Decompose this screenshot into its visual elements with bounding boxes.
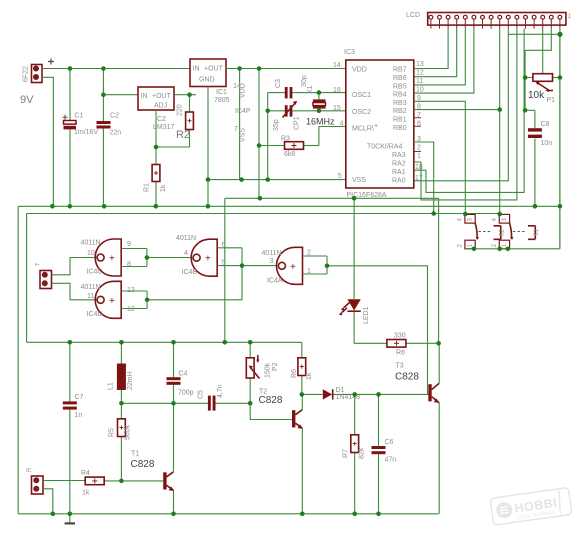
svg-text:22n: 22n bbox=[110, 130, 122, 137]
svg-text:C7: C7 bbox=[75, 394, 84, 401]
battery connector X1 9V 6F22 bbox=[20, 59, 54, 107]
svg-text:+OUT: +OUT bbox=[204, 66, 224, 73]
wire R pin1 to R4 bbox=[43, 480, 85, 482]
svg-text:4011N: 4011N bbox=[176, 235, 196, 242]
svg-text:1k: 1k bbox=[82, 490, 90, 497]
svg-text:S1: S1 bbox=[534, 228, 540, 236]
svg-text:+: + bbox=[205, 254, 211, 265]
connector R bbox=[27, 467, 43, 494]
wire T3 collector and emitter bbox=[438, 343, 440, 514]
wire battery plus rail to 7805 IN bbox=[42, 68, 190, 70]
wire LCD pin 3 to P1 wiper bbox=[542, 29, 544, 74]
resistor R2 220 bbox=[176, 95, 193, 147]
wire +5V distribution line bbox=[225, 197, 439, 199]
switch S2 bbox=[458, 214, 506, 248]
svg-text:22mH: 22mH bbox=[127, 371, 134, 390]
svg-text:VSS: VSS bbox=[352, 177, 366, 184]
svg-text:16: 16 bbox=[333, 87, 341, 94]
svg-text:R5: R5 bbox=[109, 428, 116, 437]
svg-text:P1: P1 bbox=[547, 97, 556, 104]
capacitor C5 4,7n bbox=[198, 384, 225, 410]
capacitor C3 30p bbox=[275, 75, 308, 98]
svg-text:RB5: RB5 bbox=[393, 84, 407, 91]
transistor T3 C828 bbox=[395, 363, 439, 403]
VSS rail to PIC bbox=[208, 179, 346, 181]
svg-text:12: 12 bbox=[416, 70, 424, 77]
svg-text:IC2: IC2 bbox=[155, 116, 166, 123]
svg-text:6k8: 6k8 bbox=[284, 151, 295, 158]
wire +5V rail 7805 OUT to PIC VDD bbox=[226, 68, 346, 70]
LCD pin circles and stubs bbox=[429, 15, 562, 28]
IC4P power pins 14 VDD 7 VSS bbox=[233, 69, 251, 180]
wire LCD pin 2 VDD supply bbox=[525, 29, 551, 111]
svg-text:GND: GND bbox=[199, 77, 215, 84]
svg-text:ADJ: ADJ bbox=[154, 103, 167, 110]
svg-text:11: 11 bbox=[87, 293, 94, 300]
wire R pin2 to ground bbox=[43, 489, 53, 514]
svg-text:RB1: RB1 bbox=[393, 117, 407, 124]
resistor R1 1k bbox=[144, 147, 168, 206]
svg-text:+: + bbox=[374, 123, 378, 130]
diode D1 1N4148 bbox=[302, 387, 429, 401]
inductor L1 22mH bbox=[108, 342, 135, 403]
trimmer capacitor CP1 35p bbox=[273, 101, 301, 131]
ground symbol bbox=[65, 514, 75, 524]
svg-text:MCLR\: MCLR\ bbox=[352, 126, 374, 133]
svg-text:P2: P2 bbox=[272, 362, 279, 371]
nand gate IC4D 4011N bbox=[81, 281, 135, 318]
svg-text:C828: C828 bbox=[259, 395, 283, 406]
svg-text:RB0: RB0 bbox=[393, 125, 407, 132]
svg-text:220: 220 bbox=[177, 104, 184, 116]
wire T pin2 to IC4D output bbox=[52, 283, 98, 300]
bottom ground rail bbox=[18, 513, 438, 515]
transistor T2 C828 bbox=[259, 389, 304, 429]
wire RB2 LCD pin 8 to switch S1 bbox=[414, 29, 500, 215]
wire R6 top bbox=[301, 342, 303, 358]
svg-text:C3: C3 bbox=[275, 79, 282, 88]
svg-text:C4: C4 bbox=[179, 371, 188, 378]
svg-text:330: 330 bbox=[394, 333, 406, 340]
capacitor C6 47n bbox=[372, 394, 397, 513]
svg-text:1k: 1k bbox=[306, 372, 313, 380]
wire RB4 to LCD pin 11 bbox=[414, 29, 474, 94]
svg-text:10k: 10k bbox=[528, 90, 545, 101]
oscillator rail bbox=[27, 341, 302, 343]
svg-text:47n: 47n bbox=[385, 457, 397, 464]
svg-text:1m/16V: 1m/16V bbox=[74, 129, 98, 136]
wire RA0 to LCD pin 7 bbox=[414, 29, 508, 181]
svg-text:LED1: LED1 bbox=[363, 306, 370, 324]
capacitor C4 700p bbox=[167, 342, 194, 403]
svg-text:R2: R2 bbox=[176, 129, 190, 141]
svg-text:15: 15 bbox=[333, 105, 341, 112]
wire oscillator caps ground vertical bbox=[267, 93, 269, 180]
svg-text:IC4C: IC4C bbox=[87, 269, 103, 276]
svg-text:T1: T1 bbox=[131, 451, 139, 458]
svg-text:4011N: 4011N bbox=[81, 240, 101, 247]
wire T pin1 to IC4C output bbox=[52, 258, 98, 275]
svg-text:RB2: RB2 bbox=[393, 108, 407, 115]
wire RB7 to LCD pin 14 bbox=[414, 29, 448, 69]
svg-text:700p: 700p bbox=[178, 390, 194, 397]
microcontroller IC3 PIC16F628A bbox=[333, 49, 424, 199]
svg-text:R8: R8 bbox=[396, 350, 405, 357]
svg-text:150k: 150k bbox=[265, 362, 272, 378]
voltage regulator IC1 7805 bbox=[190, 59, 230, 104]
svg-text:IN: IN bbox=[141, 93, 148, 100]
svg-text:IC1: IC1 bbox=[216, 89, 227, 96]
svg-text:IN: IN bbox=[193, 66, 200, 73]
svg-text:4011N: 4011N bbox=[262, 250, 282, 257]
wire ground rail left drop bbox=[17, 206, 19, 514]
svg-text:560k: 560k bbox=[125, 424, 132, 440]
wire IC4A inputs tied to T3 base net bbox=[303, 256, 428, 394]
svg-text:L1: L1 bbox=[108, 382, 115, 390]
svg-text:C6: C6 bbox=[385, 439, 394, 446]
watermark logo HOBBI ELEKTRONIKA bbox=[490, 487, 572, 525]
svg-text:10: 10 bbox=[416, 87, 424, 94]
svg-text:IC4B: IC4B bbox=[182, 269, 198, 276]
svg-text:6F22: 6F22 bbox=[23, 66, 30, 82]
svg-text:+: + bbox=[290, 262, 296, 273]
wire +5V drop to R8 bbox=[438, 198, 440, 343]
svg-text:RA2: RA2 bbox=[392, 161, 406, 168]
svg-text:4: 4 bbox=[184, 250, 188, 257]
svg-text:30p: 30p bbox=[301, 75, 308, 87]
svg-text:IC4P: IC4P bbox=[235, 108, 251, 115]
wire LM317 OUT to R2 bbox=[174, 94, 196, 96]
resistor R6 1k bbox=[291, 358, 313, 395]
potentiometer P1 10k bbox=[525, 74, 560, 104]
svg-text:VDD: VDD bbox=[240, 83, 247, 98]
wire T1 base row bbox=[121, 480, 163, 482]
svg-text:C8: C8 bbox=[541, 121, 550, 128]
nand gate IC4A 4011N bbox=[262, 247, 312, 284]
LCD header connector bbox=[406, 12, 572, 25]
transistor T1 C828 bbox=[131, 451, 175, 492]
svg-text:RB4: RB4 bbox=[393, 92, 407, 99]
resistor R4 1k bbox=[81, 470, 121, 497]
resistor R7 82k bbox=[343, 394, 366, 513]
svg-text:7: 7 bbox=[234, 126, 238, 133]
svg-text:16MHz: 16MHz bbox=[306, 117, 335, 127]
svg-text:9V: 9V bbox=[20, 94, 34, 106]
resistor R8 330 bbox=[354, 333, 439, 357]
svg-text:T: T bbox=[36, 262, 42, 266]
svg-text:5: 5 bbox=[338, 173, 342, 180]
svg-text:VSS: VSS bbox=[240, 128, 247, 142]
svg-text:C2: C2 bbox=[110, 113, 119, 120]
svg-text:7805: 7805 bbox=[214, 97, 230, 104]
svg-text:IC3: IC3 bbox=[344, 49, 355, 56]
wire battery minus down to ground rail bbox=[42, 77, 53, 206]
wire rail B RA4 net across bbox=[27, 213, 500, 215]
connector T bbox=[36, 262, 52, 289]
svg-text:35p: 35p bbox=[273, 119, 280, 131]
svg-text:RB3: RB3 bbox=[393, 100, 407, 107]
svg-text:R6: R6 bbox=[291, 369, 298, 378]
svg-text:10n: 10n bbox=[541, 140, 553, 147]
svg-text:1: 1 bbox=[417, 153, 421, 160]
svg-text:RB6: RB6 bbox=[393, 75, 407, 82]
crystal X1 16MHz bbox=[306, 85, 335, 126]
svg-text:12: 12 bbox=[127, 306, 135, 313]
wire RB3 to switch S2 bbox=[414, 101, 465, 214]
svg-text:1n: 1n bbox=[75, 412, 83, 419]
resistor R5 560k bbox=[109, 403, 132, 481]
wire RB5 to LCD pin 12 bbox=[414, 29, 465, 85]
svg-text:LCD: LCD bbox=[406, 12, 420, 19]
wire IC4D inputs tied to IC4B inputs bbox=[121, 248, 242, 309]
wire 7805 GND down to ground rail bbox=[207, 87, 209, 207]
svg-text:RA0: RA0 bbox=[392, 178, 406, 185]
svg-text:C5: C5 bbox=[198, 390, 205, 399]
wire +5V branch down to R3 and lower section bbox=[258, 69, 260, 199]
wire T1 collector and emitter bbox=[173, 403, 175, 514]
voltage regulator IC2 LM317 bbox=[138, 87, 175, 131]
svg-text:4011N: 4011N bbox=[81, 284, 101, 291]
capacitor C1 1m/16V bbox=[63, 69, 99, 207]
svg-text:VDD: VDD bbox=[352, 67, 367, 74]
wire RA2 to LCD pin 6 bbox=[414, 29, 517, 200]
svg-text:OSC1: OSC1 bbox=[352, 92, 371, 99]
svg-text:14: 14 bbox=[333, 62, 341, 69]
wire MCLR net R3 to PIC bbox=[319, 127, 346, 146]
wire P2 bottom to T2 base bbox=[250, 403, 293, 419]
wire IC4C inputs tied bbox=[121, 249, 192, 267]
svg-text:T3: T3 bbox=[396, 363, 404, 370]
svg-text:82k: 82k bbox=[359, 447, 366, 459]
svg-text:+: + bbox=[109, 254, 115, 265]
capacitor C7 1n bbox=[63, 342, 84, 514]
svg-text:IC4A: IC4A bbox=[267, 278, 283, 285]
svg-text:S2: S2 bbox=[500, 228, 506, 236]
svg-text:RA1: RA1 bbox=[392, 169, 406, 176]
svg-text:2: 2 bbox=[417, 145, 421, 152]
wire IC4B inputs to IC4A output bbox=[217, 248, 276, 266]
svg-text:T0CKI/RA4: T0CKI/RA4 bbox=[367, 144, 403, 151]
wire T2 collector up emitter down bbox=[301, 394, 303, 513]
svg-text:11: 11 bbox=[416, 78, 423, 85]
LED1 bbox=[339, 198, 370, 343]
wire branch top rail down to LM317 IN bbox=[103, 69, 138, 95]
wire LM317 ADJ to R1/R2 node bbox=[156, 110, 190, 147]
svg-text:IC4D: IC4D bbox=[87, 311, 103, 318]
svg-text:RA3: RA3 bbox=[392, 152, 406, 159]
svg-text:C1: C1 bbox=[75, 113, 84, 120]
wire rail B left drop to oscillator rail bbox=[26, 214, 28, 343]
svg-text:R1: R1 bbox=[144, 183, 151, 192]
svg-text:R3: R3 bbox=[281, 136, 290, 143]
svg-text:+OUT: +OUT bbox=[152, 93, 172, 100]
wire RA1 to LCD pin 5 bbox=[414, 29, 524, 193]
svg-text:X1: X1 bbox=[307, 85, 314, 94]
svg-text:R4: R4 bbox=[81, 470, 90, 477]
svg-text:3: 3 bbox=[270, 258, 274, 265]
nand gate IC4C 4011N bbox=[81, 239, 132, 276]
svg-text:+: + bbox=[109, 296, 115, 307]
svg-text:4,7n: 4,7n bbox=[217, 384, 224, 398]
wire OSC1 row bbox=[268, 92, 346, 94]
wire LCD pin 1 VSS bbox=[508, 29, 560, 249]
wire RA4 down to oscillator rail net bbox=[414, 142, 434, 214]
svg-text:C828: C828 bbox=[131, 459, 155, 470]
wire OSC2 row bbox=[268, 110, 346, 112]
wire switch bottoms to ground bbox=[465, 206, 560, 249]
switch S1 bbox=[492, 214, 540, 248]
svg-text:9: 9 bbox=[127, 241, 131, 248]
svg-text:10: 10 bbox=[87, 250, 95, 257]
svg-text:R: R bbox=[27, 467, 33, 472]
svg-text:RB7: RB7 bbox=[393, 67, 407, 74]
svg-text:13: 13 bbox=[416, 61, 424, 68]
potentiometer P2 150k bbox=[246, 342, 279, 403]
svg-text:1k: 1k bbox=[160, 184, 167, 192]
resistor R3 6k8 bbox=[259, 136, 319, 159]
svg-text:4: 4 bbox=[340, 121, 344, 128]
svg-text:CP1: CP1 bbox=[294, 116, 301, 130]
svg-text:R7: R7 bbox=[343, 449, 350, 458]
svg-text:D1: D1 bbox=[336, 387, 345, 394]
svg-text:OSC2: OSC2 bbox=[352, 109, 371, 116]
ground rail A bbox=[18, 205, 560, 207]
wire +5V drop to oscillator rail bbox=[224, 198, 226, 342]
wire tank row bbox=[121, 402, 250, 404]
wire RB6 to LCD pin 13 bbox=[414, 29, 457, 77]
capacitor C2 22n bbox=[97, 95, 122, 207]
svg-text:C828: C828 bbox=[395, 372, 419, 383]
nand gate IC4B 4011N bbox=[176, 235, 226, 276]
wire GND vertical right side bbox=[559, 34, 561, 206]
capacitor C8 10n bbox=[525, 110, 552, 206]
